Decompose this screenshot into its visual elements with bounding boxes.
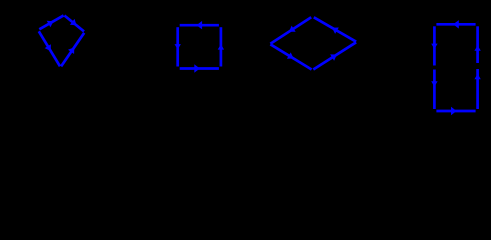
edge MR->TR (upper-right side, arrow pointing up) [476, 26, 479, 63]
edge T->R (arrow toward right vertex) [64, 16, 84, 32]
edge TL->ML (upper-left side, arrow pointing down) [433, 26, 436, 65]
graph 1: kite-shaped digraph (left vertex source, right vertex sink) [39, 15, 84, 66]
edge B->R (arrow toward right vertex) [61, 33, 84, 67]
edge TR->TL (top side, arrow pointing left) [180, 24, 219, 27]
edge T->L (arrow pointing down-left) [270, 17, 311, 43]
edge BR->TR (right side, arrow pointing up) [220, 27, 223, 66]
edge ML->BL (lower-left side, arrow pointing down) [433, 70, 436, 110]
edge L->B (arrow toward bottom vertex) [39, 31, 60, 66]
edge TR->TL (top side, arrow pointing left) [436, 23, 475, 26]
graph 4: tall rectangle digraph, counterclockwise 6-cycle with mid-side vertices [431, 20, 481, 115]
edge L->B (arrow pointing down-right) [270, 44, 311, 69]
edge L->T (arrow toward top vertex) [39, 15, 63, 29]
edge R->T (arrow pointing up-left) [314, 17, 356, 41]
edge B->R (arrow pointing up-right) [313, 42, 356, 69]
edge BL->BR (bottom side, arrow pointing right) [180, 67, 219, 70]
graph 3: diamond (rhombus) digraph, counterclockwise 4-cycle [270, 17, 356, 69]
edge BR->MR (lower-right side, arrow pointing up) [476, 69, 479, 109]
edge TL->BL (left side, arrow pointing down) [176, 27, 179, 66]
edge BL->BR (bottom side, arrow pointing right) [436, 110, 475, 113]
graph 2: square digraph, counterclockwise 4-cycle [175, 21, 225, 73]
